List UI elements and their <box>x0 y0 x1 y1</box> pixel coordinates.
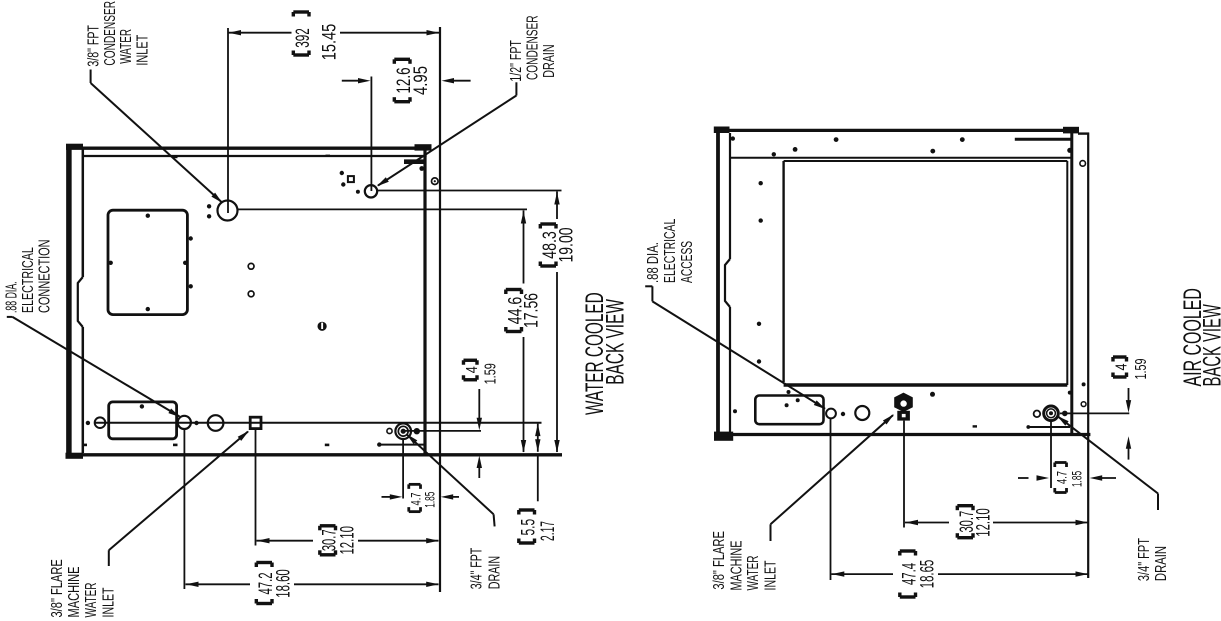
leader 3/4 fpt drain right <box>1057 416 1158 510</box>
screw dots on upper box <box>109 214 193 312</box>
label 3/8 flare machine water inlet right <box>711 531 780 590</box>
left machine inner top line <box>84 156 427 162</box>
svg-text:DRAIN: DRAIN <box>541 44 558 77</box>
left machine outer right edge and extension <box>439 27 441 592</box>
dim text [44.6] 17.56 <box>506 290 543 332</box>
dim text [4] 1.59 left <box>463 360 499 384</box>
svg-text:4.7: 4.7 <box>409 493 424 506</box>
leader .88 dia electrical access <box>645 286 826 409</box>
leader .88 dia electrical connection <box>7 317 181 417</box>
dim text [4] 1.59 right <box>1113 357 1150 380</box>
svg-text:18.60: 18.60 <box>274 569 295 598</box>
leader 3/8 flare machine water inlet right <box>771 414 895 541</box>
dim text [48.3] 19.00 <box>540 224 578 266</box>
svg-text:12.10: 12.10 <box>974 508 995 537</box>
machine water inlet square <box>250 417 261 428</box>
dim text [30.7] 12.10 left <box>320 526 359 555</box>
dim text [47.2] 18.60 <box>256 563 295 604</box>
left electrical box lower <box>109 402 177 439</box>
rivet dot top right <box>419 166 424 171</box>
right machine outer right edge and extension <box>1078 133 1089 579</box>
dim arrows 4.7 right <box>1018 475 1116 480</box>
svg-text:3/8" FLARE: 3/8" FLARE <box>711 531 728 590</box>
svg-text:.88 DIA.: .88 DIA. <box>645 242 662 283</box>
coil box top edge <box>784 160 1068 162</box>
right machine body left edge with jog <box>725 133 730 435</box>
rivet dots right machine top band <box>731 136 1073 156</box>
dot right of drain <box>414 428 420 434</box>
svg-text:ELECTRICAL: ELECTRICAL <box>662 218 679 283</box>
svg-text:DRAIN: DRAIN <box>487 556 504 589</box>
svg-text:BACK VIEW: BACK VIEW <box>601 299 629 385</box>
left machine body left edge with jog <box>78 150 83 454</box>
svg-text:1.85: 1.85 <box>1070 471 1085 487</box>
.88 dia electrical access circle <box>826 409 836 419</box>
dot right of connection circle <box>194 421 198 425</box>
svg-text:MACHINE: MACHINE <box>66 567 83 618</box>
svg-text:INLET: INLET <box>763 560 780 590</box>
dots near inlet circle <box>207 204 211 218</box>
left machine bottom edge <box>66 453 562 456</box>
coil box right edge <box>1066 161 1068 385</box>
right edge small marks <box>1068 161 1086 407</box>
3/4 fpt drain hole <box>395 423 411 439</box>
small circle left of right drain <box>1034 411 1041 418</box>
dim text [4.7] 1.85 left <box>409 484 438 511</box>
label 3/4 fpt drain left <box>468 547 503 589</box>
label 3/4 fpt drain right <box>1136 538 1170 581</box>
small circle left of drain <box>387 428 392 433</box>
ext line from inlet square <box>255 429 257 546</box>
rivet dots right machine left panel <box>733 181 763 413</box>
leader 1/2 fpt condenser drain <box>377 82 517 186</box>
svg-text:4.95: 4.95 <box>411 66 432 95</box>
label 3/8 flare machine water inlet <box>49 559 118 617</box>
left machine top edge <box>66 144 432 150</box>
svg-text:18.65: 18.65 <box>918 560 939 589</box>
dim line 47.4 <box>831 571 1088 576</box>
svg-text:CONNECTION: CONNECTION <box>37 239 54 313</box>
dim text [47.4] 18.65 <box>900 551 939 597</box>
svg-text:WATER: WATER <box>745 556 762 591</box>
right machine right body edge <box>1070 132 1073 436</box>
svg-text:4: 4 <box>464 366 481 373</box>
ext line drain center level <box>403 430 481 432</box>
3/4 fpt drain hole right <box>1044 406 1059 421</box>
dim arrows 12.6 <box>342 78 471 83</box>
svg-text:MACHINE: MACHINE <box>729 541 746 591</box>
svg-text:15.45: 15.45 <box>319 24 340 61</box>
svg-text:392: 392 <box>293 28 314 48</box>
dim arrows 4.7 left drawing <box>382 494 460 499</box>
dim line 44.6 <box>521 210 526 452</box>
left machine bottom seam line <box>83 442 426 446</box>
dim text [4.7] 1.85 right <box>1055 463 1085 493</box>
svg-text:3/4" FPT: 3/4" FPT <box>468 547 485 589</box>
left electrical box upper <box>108 210 187 314</box>
right machine bottom edge <box>716 433 1090 436</box>
svg-text:WATER: WATER <box>118 29 135 64</box>
dot near hex <box>930 392 935 397</box>
right machine top edge <box>715 127 1079 134</box>
label 3/8 fpt condenser water inlet <box>85 1 151 67</box>
svg-text:4: 4 <box>1114 363 1131 370</box>
rivet ring right edge <box>432 178 439 185</box>
svg-text:2.17: 2.17 <box>538 521 559 541</box>
leader 3/4 fpt drain left <box>406 434 494 527</box>
right machine bottom seam <box>973 425 1070 429</box>
dim text [12.6] 4.95 <box>394 59 432 101</box>
ext line for 12.6 drain <box>370 77 372 192</box>
dim 5.5 <box>535 424 540 502</box>
ext line right drain level <box>1060 412 1129 414</box>
dot right of access circle <box>841 412 845 416</box>
dim text [5.5] 2.17 <box>519 510 560 543</box>
dim 4 right upper arrow <box>1126 388 1131 413</box>
dim text [30.7] 12.10 right <box>957 506 995 538</box>
coil box left edge <box>782 161 784 382</box>
svg-text:CONDENSER: CONDENSER <box>102 1 119 66</box>
svg-text:19.00: 19.00 <box>557 228 578 263</box>
label .88 dia electrical connection <box>4 239 54 313</box>
keyhole slot center panel <box>318 322 327 331</box>
right machine left flange bar <box>714 127 733 441</box>
dim line 392 <box>228 30 439 35</box>
left machine right body edge <box>423 147 426 456</box>
hole circle <box>208 415 224 431</box>
dim 4 right lower arrow <box>1126 436 1131 459</box>
right machine inner top line <box>730 157 1071 159</box>
ext line left for 392 <box>227 28 229 213</box>
dim line 47.2 <box>186 582 439 587</box>
hole circle right machine <box>855 406 869 420</box>
dot left of first hole <box>86 421 90 425</box>
3/8 flare fitting hex <box>894 393 913 421</box>
ext line hex down <box>903 421 905 528</box>
small hole circle <box>95 417 106 428</box>
svg-text:4.7: 4.7 <box>1055 471 1070 484</box>
dot right of right drain <box>1062 411 1068 417</box>
svg-text:1.59: 1.59 <box>483 363 500 384</box>
dim 4 lower arrow <box>477 456 482 479</box>
ext line drain down <box>402 438 404 499</box>
condenser drain circle <box>365 185 377 197</box>
label .88 dia electrical access <box>645 218 696 283</box>
svg-text:3/8" FLARE: 3/8" FLARE <box>49 559 66 617</box>
svg-text:1.85: 1.85 <box>423 492 438 508</box>
title water cooled back view <box>581 292 629 415</box>
coil box bottom edge <box>784 383 1068 387</box>
svg-text:ACCESS: ACCESS <box>679 241 696 283</box>
open hole circles mid panel <box>248 263 254 296</box>
svg-text:INLET: INLET <box>135 34 152 65</box>
leader 3/8 flare machine water inlet <box>109 431 249 566</box>
svg-text:5.5: 5.5 <box>519 519 540 536</box>
svg-text:12.10: 12.10 <box>338 526 359 555</box>
svg-text:3/8" FPT: 3/8" FPT <box>85 25 102 67</box>
svg-text:ELECTRICAL: ELECTRICAL <box>20 247 37 313</box>
dim 4 upper arrow <box>477 389 482 430</box>
dim text [392] 15.45 <box>293 12 340 60</box>
title air cooled back view <box>1179 288 1221 386</box>
leader 3/8 fpt condenser water inlet <box>91 70 223 204</box>
ext line from connection circle <box>183 429 185 589</box>
right machine short top bar <box>1015 138 1071 141</box>
svg-text:INLET: INLET <box>101 587 118 617</box>
ext line access circle down <box>830 418 832 580</box>
svg-text:.88 DIA.: .88 DIA. <box>4 281 21 313</box>
ext line right drain down <box>1050 421 1052 488</box>
svg-text:1/2" FPT: 1/2" FPT <box>508 40 525 82</box>
svg-text:17.56: 17.56 <box>522 293 543 328</box>
right electrical box <box>755 390 823 424</box>
svg-text:3/4" FPT: 3/4" FPT <box>1136 538 1153 581</box>
condenser water inlet circle <box>218 201 238 221</box>
left machine left flange bar <box>66 144 84 459</box>
ticks on inner top line <box>174 155 331 159</box>
svg-text:DRAIN: DRAIN <box>1153 546 1170 581</box>
label 1/2 fpt condenser drain <box>508 15 558 81</box>
left machine bottom holes centerline <box>94 422 542 424</box>
svg-text:CONDENSER: CONDENSER <box>525 15 542 80</box>
svg-text:BACK VIEW: BACK VIEW <box>1198 304 1221 387</box>
dim line 30.7 left <box>257 538 439 543</box>
ext line inlet level <box>238 208 528 210</box>
.88 dia electrical connection circle <box>178 416 191 429</box>
small square hole near drain <box>348 176 354 182</box>
svg-text:1.59: 1.59 <box>1133 358 1150 379</box>
dim line 30.7 right <box>905 520 1088 525</box>
ext line condenser drain level <box>377 190 562 192</box>
dots near drain hole <box>340 171 360 194</box>
dim line 48.3 <box>554 192 559 453</box>
svg-text:WATER: WATER <box>83 583 100 618</box>
